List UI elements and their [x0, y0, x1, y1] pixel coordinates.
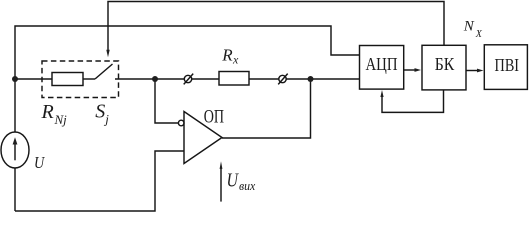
- wire Rx to probe contact 2: [249, 78, 279, 80]
- svg-text:ПВІ: ПВІ: [495, 55, 520, 75]
- op-amp U1 triangle: [184, 112, 222, 164]
- wire feedback BK to ADC: [382, 90, 444, 113]
- svg-text:N: N: [463, 18, 475, 34]
- resistor Rx: [219, 72, 249, 86]
- svg-text:Nj: Nj: [54, 112, 68, 127]
- svg-text:R: R: [41, 101, 54, 123]
- svg-text:АЦП: АЦП: [366, 54, 398, 74]
- block ADC box: [360, 46, 404, 90]
- svg-text:ОП: ОП: [204, 106, 224, 127]
- block PVI box: [484, 45, 527, 90]
- probe contact 1 (slashed circle): [184, 75, 191, 82]
- node A junction dot left: [12, 76, 18, 82]
- wire left rail upper: [14, 79, 16, 132]
- node C junction dot right: [308, 76, 314, 82]
- arrowhead BK to PVI: [477, 69, 484, 73]
- svg-text:БК: БК: [435, 54, 455, 74]
- svg-text:S: S: [95, 101, 105, 123]
- wire main measuring line left: [15, 78, 52, 80]
- wire bottom rail to op-amp non-inverting input: [15, 151, 184, 211]
- current source arrow shaft: [14, 143, 16, 160]
- wire top control line to switch and BK: [108, 2, 444, 52]
- arrowhead feedback into ADC: [380, 90, 383, 97]
- probe contact 2 (slashed circle): [279, 75, 286, 82]
- svg-text:x: x: [232, 52, 239, 66]
- node B junction dot middle: [152, 76, 158, 82]
- arrowhead U_vyh: [220, 161, 223, 169]
- arrowhead current source: [13, 137, 18, 144]
- dashed box around R_Nj and S_j: [42, 61, 119, 98]
- arrowhead ADC to BK: [415, 68, 422, 72]
- current source U circle: [1, 132, 29, 168]
- U_vyh output arrow shaft: [220, 167, 222, 202]
- svg-text:R: R: [221, 45, 233, 64]
- svg-text:U: U: [227, 170, 240, 192]
- wire probe 2 to ADC: [286, 78, 359, 80]
- wire ADC to BK: [404, 69, 416, 71]
- wire switch contact to node: [115, 78, 155, 80]
- wire probe 1 to Rx: [192, 78, 219, 80]
- wire BK to PVI: [466, 70, 478, 72]
- wire left rail lower: [14, 168, 16, 211]
- switch S_j lever: [95, 64, 113, 79]
- wire op-amp output to node: [222, 79, 311, 138]
- wire resistor to switch pivot: [83, 78, 95, 80]
- block BK box: [422, 45, 466, 90]
- op-amp inverting bubble: [178, 120, 184, 126]
- svg-text:U: U: [34, 153, 46, 172]
- svg-text:X: X: [475, 29, 483, 40]
- svg-text:вих: вих: [239, 178, 256, 193]
- arrowhead switch control: [106, 50, 109, 58]
- wire upper feedback line from left rail to ADC: [15, 26, 359, 79]
- wire op-amp inverting input: [155, 79, 179, 123]
- wire node to probe contact 1: [155, 78, 184, 80]
- resistor R_Nj: [52, 73, 83, 86]
